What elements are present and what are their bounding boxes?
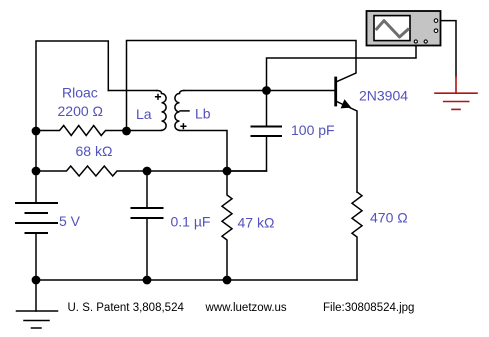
oscilloscope knob bottom 1 — [414, 40, 417, 43]
resistor 470 ohm vertical — [352, 192, 362, 280]
svg-text:100 pF: 100 pF — [291, 122, 335, 138]
junction node dot 47k top — [223, 167, 232, 176]
battery B1 5V plates — [16, 202, 57, 204]
svg-text:47 kΩ: 47 kΩ — [238, 215, 275, 231]
wire top-left rail from left rail to La top corner — [36, 41, 108, 131]
svg-text:Lb: Lb — [195, 106, 211, 122]
oscilloscope knob top right 1 — [434, 19, 438, 23]
ground GND1 bars — [17, 310, 58, 312]
inductor La — [157, 91, 166, 131]
wire La top lead — [108, 90, 157, 92]
svg-text:2200 Ω: 2200 Ω — [58, 103, 104, 119]
wire top rail 2 and collector path to Q1 — [127, 41, 357, 132]
oscilloscope knob bottom 2 — [424, 40, 427, 43]
wire left rail upper (node VCC left) — [35, 131, 37, 203]
svg-text:68 kΩ: 68 kΩ — [76, 143, 113, 159]
wire bottom rail — [36, 279, 357, 281]
resistor 47k vertical — [222, 171, 232, 280]
wire base lead from node to Q1 base — [267, 90, 335, 92]
wire left rail lower from battery to bottom rail — [35, 233, 37, 280]
label La polarity plus — [155, 94, 161, 100]
svg-text:www.luetzow.us: www.luetzow.us — [205, 302, 287, 314]
junction node dot left 68k — [32, 167, 41, 176]
inductor Lb — [175, 91, 184, 131]
wire Lb center tap stub — [180, 110, 189, 112]
capacitor 0.1uF — [146, 171, 148, 208]
wire scope right terminal to ground — [441, 21, 457, 77]
svg-text:File:30808524.jpg: File:30808524.jpg — [323, 302, 414, 314]
junction node dot bottom rail 47k — [223, 276, 232, 285]
ground GND1 stem bottom left — [35, 280, 37, 311]
junction node dot base node — [262, 86, 271, 95]
junction node dot bottom rail 0.1uF — [143, 276, 152, 285]
resistor Rloac 2200 ohm — [36, 126, 127, 136]
svg-text:0.1 µF: 0.1 µF — [171, 214, 211, 230]
oscilloscope body — [367, 11, 441, 46]
label Lb polarity plus — [180, 123, 186, 129]
svg-text:La: La — [136, 106, 152, 122]
wire Lb top lead to base node — [184, 90, 267, 92]
svg-text:470 Ω: 470 Ω — [370, 210, 408, 226]
ground GND2 red bars — [435, 92, 477, 94]
oscilloscope triangle wave trace — [376, 21, 409, 37]
svg-text:U. S. Patent 3,808,524: U. S. Patent 3,808,524 — [68, 302, 185, 314]
ground GND2 red stem — [455, 77, 457, 94]
junction node dot bottom rail left — [32, 276, 41, 285]
oscilloscope knob right 2 — [434, 29, 438, 33]
wire La bottom lead to node at 2200 ohm — [127, 130, 162, 132]
capacitor 100pF — [266, 91, 268, 127]
transistor Q1 emitter arrow — [341, 99, 352, 108]
svg-text:5 V: 5 V — [59, 213, 81, 229]
wire Lb bottom lead down to 47k top node — [180, 131, 228, 172]
junction node dot right 2200 / La — [122, 127, 131, 136]
transistor Q1 emitter and lead to 470 ohm — [337, 102, 357, 193]
resistor 68k — [36, 166, 147, 176]
svg-text:2N3904: 2N3904 — [359, 88, 408, 104]
svg-text:Rloac: Rloac — [62, 85, 98, 101]
wire node row y=171 from 0.1uF to 47k to 100pF corner — [147, 170, 267, 172]
oscilloscope screen — [374, 16, 410, 41]
wire scope probe from base node up and over to scope — [267, 46, 417, 91]
junction node dot 0.1uF top — [143, 167, 152, 176]
transistor Q1 2N3904 base bar — [334, 78, 337, 105]
junction node dot left 2200 — [32, 127, 41, 136]
